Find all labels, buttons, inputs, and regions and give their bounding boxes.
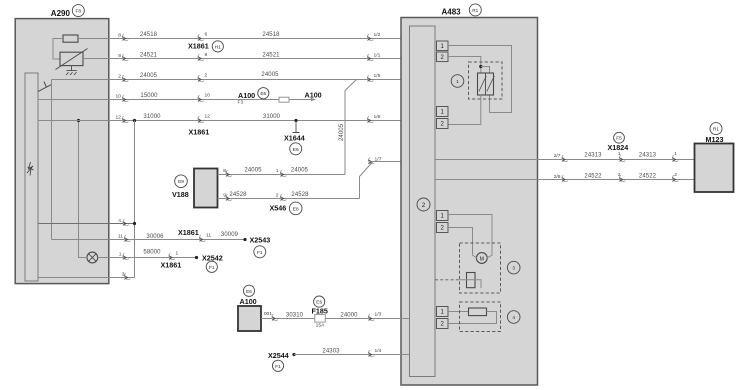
flap symbol in enclosure 3: [467, 273, 476, 288]
svg-text:H1: H1: [215, 44, 221, 50]
wire output row 2/8: [435, 179, 538, 181]
svg-text:A100: A100: [238, 91, 255, 100]
svg-text:X1644: X1644: [284, 134, 305, 143]
pin square block B pin 2: [437, 119, 449, 129]
wire block C pin2 to motor: [448, 228, 473, 255]
svg-text:9: 9: [223, 193, 226, 199]
riser wire 24005 to pin 1/5: [345, 80, 357, 175]
svg-text:24303: 24303: [322, 349, 340, 355]
svg-text:24528: 24528: [291, 192, 309, 198]
svg-text:31000: 31000: [263, 114, 281, 120]
circled code E9 of V188: [175, 175, 188, 188]
svg-text:R1: R1: [713, 127, 719, 133]
wire X2544 to pin 1/4: [294, 354, 410, 356]
fuse F185: [315, 315, 326, 323]
svg-text:24521: 24521: [262, 53, 280, 59]
wire fuse to A100 arrow: [289, 99, 316, 101]
wire row pin 11 / 30006 to X2543: [52, 239, 246, 241]
pin square block A pin 1: [437, 41, 449, 51]
svg-text:24521: 24521: [140, 53, 158, 59]
splice X2544: [292, 353, 295, 356]
svg-text:1: 1: [176, 251, 179, 257]
svg-text:001: 001: [264, 311, 272, 317]
svg-text:24518: 24518: [262, 32, 280, 38]
ground symbol under rheostat: [66, 66, 77, 75]
svg-text:X2543: X2543: [250, 236, 271, 245]
svg-text:X1861: X1861: [161, 260, 182, 269]
svg-text:15000: 15000: [140, 93, 158, 99]
wire row pin 9 / 24521 to A483 pin 1/1: [83, 58, 410, 60]
svg-text:1/6: 1/6: [374, 114, 381, 120]
svg-text:24005: 24005: [140, 73, 158, 79]
wire row pin 12 / 31000 to A483 pin 1/6: [38, 120, 410, 122]
svg-text:E8: E8: [293, 206, 299, 212]
dashed mechanical link from bar: [435, 279, 460, 281]
motor M123 box: [695, 144, 734, 193]
pin square block D pin 2: [437, 319, 449, 329]
wire heater bottom to block B pin2: [448, 95, 481, 125]
svg-text:30310: 30310: [286, 312, 304, 318]
svg-text:F8: F8: [75, 9, 81, 15]
connector bar of A290: [25, 73, 38, 281]
svg-text:4: 4: [512, 315, 515, 321]
svg-text:1/4: 1/4: [375, 348, 382, 354]
svg-text:31000: 31000: [143, 114, 161, 120]
wire row 2/8 / 24522 to M123 pin 2: [538, 179, 695, 181]
wire block D pin1 to sensor resistor: [448, 311, 469, 313]
svg-text:X2544: X2544: [268, 351, 289, 360]
svg-text:24313: 24313: [639, 153, 657, 159]
internal connection mark on bar: [27, 162, 34, 176]
wire into pin 1/7: [368, 162, 410, 168]
svg-text:24313: 24313: [584, 153, 602, 159]
wire heater top tie: [481, 67, 490, 74]
circled code E6 of X1644: [290, 143, 302, 155]
svg-text:24005: 24005: [261, 72, 279, 78]
svg-text:A100: A100: [240, 297, 257, 306]
svg-text:6: 6: [205, 32, 208, 38]
svg-text:F1: F1: [257, 250, 263, 256]
svg-text:E6: E6: [293, 147, 299, 153]
svg-text:X1861: X1861: [189, 128, 210, 137]
svg-text:E6: E6: [260, 91, 266, 97]
pin square block B pin 1: [437, 107, 449, 117]
svg-text:11: 11: [118, 234, 123, 240]
circled element number 1: [451, 75, 464, 88]
svg-text:1/1: 1/1: [374, 52, 381, 58]
connector bar of A483: [410, 26, 436, 377]
svg-text:A290: A290: [51, 9, 71, 18]
circled element number 4: [507, 311, 520, 324]
svg-text:8: 8: [223, 168, 226, 174]
wire resistor left link: [53, 39, 63, 60]
svg-text:30009: 30009: [221, 232, 239, 238]
dashed enclosure of heater element 1: [469, 62, 503, 99]
svg-text:24000: 24000: [340, 312, 358, 318]
svg-text:24522: 24522: [639, 174, 657, 180]
wire row pin 1 / 58000 to X2542: [98, 257, 197, 259]
rheostat diagonal arrow: [56, 49, 88, 70]
pin square block A pin 2: [437, 52, 449, 62]
wire block A pin2 to heater top: [448, 57, 481, 74]
svg-text:2: 2: [618, 172, 621, 178]
wire V188 pin 9 / 24528: [218, 198, 360, 200]
resistor (ballast) in A290: [63, 35, 78, 42]
lamp (illumination) in A290: [87, 252, 98, 263]
svg-text:E6: E6: [316, 300, 322, 306]
breaks on F185 row: [272, 314, 278, 320]
svg-text:3: 3: [512, 266, 515, 272]
svg-text:1/5: 1/5: [374, 73, 381, 79]
junction dot on 31000 inside A290: [77, 119, 80, 122]
svg-text:1: 1: [276, 168, 279, 174]
variable resistor (rheostat) in A290: [60, 52, 83, 65]
breaks on V188 rows: [226, 170, 232, 176]
wire row pin 8 / 24518 to A483 pin 1/2: [78, 38, 410, 40]
svg-text:E9: E9: [178, 179, 184, 185]
wire output row 2/7: [435, 159, 538, 161]
wire block A pin1 loop to heater right: [448, 46, 512, 113]
riser wire 24528 to pin 1/7: [360, 167, 369, 199]
dashed enclosure 3 (actuator): [460, 243, 501, 293]
svg-text:X546: X546: [270, 203, 287, 212]
svg-text:24522: 24522: [584, 174, 602, 180]
splice dot X2542: [195, 256, 198, 259]
wire A100 to fuse F185 to pin 1/3: [261, 318, 410, 320]
connector breaks at A290 edge: [122, 34, 128, 40]
svg-text:10: 10: [205, 93, 211, 99]
power box A100 bottom: [238, 306, 261, 331]
svg-text:M: M: [480, 256, 484, 262]
wire row pin 3 to ground riser: [38, 277, 135, 279]
svg-text:M123: M123: [706, 135, 724, 144]
svg-text:1/3: 1/3: [375, 312, 382, 318]
wire block C pin1 to motor: [448, 215, 492, 255]
svg-text:2: 2: [422, 202, 426, 209]
ground riser wire to pins 4 and 3: [134, 121, 136, 278]
svg-text:X1861: X1861: [188, 42, 209, 51]
wire row 2/7 / 24313 to M123 pin 1: [538, 159, 695, 161]
svg-text:10: 10: [116, 94, 122, 100]
fuse F3 in A100 feed: [279, 97, 289, 102]
svg-text:11: 11: [206, 233, 211, 239]
svg-text:A100: A100: [305, 91, 322, 100]
svg-text:V188: V188: [172, 190, 189, 199]
svg-text:3: 3: [122, 272, 125, 278]
svg-text:R1: R1: [472, 8, 478, 14]
sensor resistor element 4: [469, 308, 487, 316]
svg-text:X1861: X1861: [178, 228, 199, 237]
junction dot heater top: [479, 65, 482, 68]
svg-text:2: 2: [118, 74, 121, 80]
svg-text:2/8: 2/8: [554, 174, 561, 180]
pin square block C pin 2: [437, 223, 449, 233]
motor M: [476, 253, 487, 264]
svg-text:4: 4: [118, 218, 121, 224]
svg-text:12: 12: [116, 115, 122, 121]
svg-text:24528: 24528: [229, 192, 247, 198]
svg-text:1: 1: [119, 252, 122, 258]
breaks on M123 rows: [562, 155, 568, 161]
svg-text:2: 2: [674, 172, 677, 178]
svg-text:1/2: 1/2: [374, 32, 381, 38]
dashed enclosure 4: [460, 302, 501, 332]
breaks at A483 left edge: [367, 34, 373, 40]
resistor pack V188: [194, 169, 218, 208]
pin square block D pin 1: [437, 307, 449, 317]
svg-text:9: 9: [118, 53, 121, 59]
wire lamp feed vertical from 31000 junction: [79, 121, 87, 258]
svg-text:9: 9: [205, 52, 208, 58]
svg-text:24005: 24005: [244, 168, 262, 174]
wire switch output vertical to pin 11 row: [51, 80, 53, 240]
svg-text:F1: F1: [275, 364, 281, 370]
svg-text:15A: 15A: [316, 322, 325, 328]
svg-text:24005: 24005: [339, 123, 345, 141]
svg-text:12: 12: [205, 114, 211, 120]
svg-text:A483: A483: [442, 7, 462, 16]
svg-text:58000: 58000: [143, 250, 161, 256]
circled element number 3: [507, 261, 520, 274]
svg-text:1/7: 1/7: [375, 157, 382, 163]
svg-text:F5: F5: [616, 136, 622, 142]
switch in A290: [38, 80, 52, 92]
junction dot X1644 stub: [294, 119, 297, 122]
svg-text:1: 1: [674, 151, 677, 157]
circled code F8: [72, 5, 84, 17]
svg-text:1: 1: [456, 79, 459, 85]
heater element (twin PTC): [478, 73, 494, 95]
svg-text:8: 8: [118, 33, 121, 39]
svg-text:F185: F185: [312, 307, 328, 316]
wire row pin 4 to ground riser: [38, 223, 135, 225]
pin square block C pin 1: [437, 211, 449, 221]
circled connector number 2 on bar: [417, 198, 430, 211]
wire row pin 2 / 24005 to A483 pin 1/5: [52, 79, 410, 81]
splice dot X2543: [243, 238, 246, 241]
control unit A290: [15, 19, 109, 284]
svg-text:X1824: X1824: [608, 143, 629, 152]
circled code R1 of A483: [469, 4, 481, 16]
connector breaks X1861: [198, 34, 204, 40]
svg-text:24005: 24005: [291, 168, 309, 174]
ground stub X1644: [293, 121, 300, 133]
wire V188 pin 8 / 24005: [218, 174, 346, 176]
svg-text:24518: 24518: [140, 32, 158, 38]
svg-text:30006: 30006: [146, 234, 164, 240]
svg-text:2/7: 2/7: [554, 153, 561, 159]
svg-text:F3: F3: [238, 99, 244, 105]
svg-text:2: 2: [276, 193, 279, 199]
svg-text:E6: E6: [246, 289, 252, 295]
circled code R1 of M123: [710, 123, 722, 135]
wire resistor loop to block D pin2: [448, 312, 497, 324]
control unit A483: [401, 18, 538, 386]
wire row pin 10 / 15000 to fuse A100: [38, 99, 279, 101]
circled code E6 of A100: [243, 285, 254, 296]
circled code E6 of F185: [314, 296, 325, 307]
svg-text:F1: F1: [209, 265, 215, 271]
svg-text:2: 2: [205, 73, 208, 79]
junction dot 31000 at ground riser: [133, 119, 136, 122]
